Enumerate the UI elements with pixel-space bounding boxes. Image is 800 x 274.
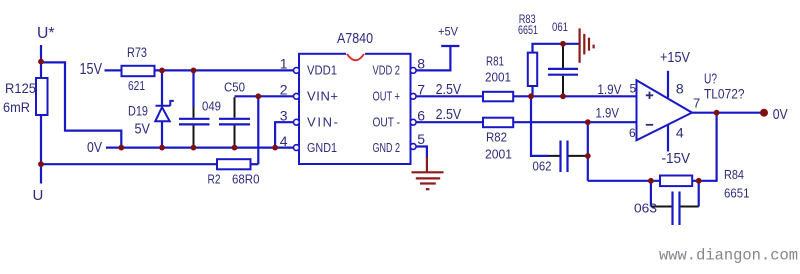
wire feedback row left of R84 [588,180,660,182]
resistor R83 [528,53,537,86]
ground sideways near C61 [580,28,594,62]
svg-text:-15V: -15V [662,150,691,167]
ground GND2 (pin 5) [412,157,444,189]
node C50 bottom [232,145,238,151]
svg-text:1.9V: 1.9V [596,104,620,120]
node 049 bottom [191,145,197,151]
op-amp minus sign [646,124,653,126]
svg-text:OUT -: OUT - [373,115,401,130]
node 0V terminal [760,109,768,117]
svg-text:www.diangon.com: www.diangon.com [659,247,798,265]
capacitor C63 [651,192,699,226]
svg-text:R125: R125 [5,80,36,96]
wire R125 bottom to bottom rail and U terminal [40,115,42,184]
diode D19 zener [155,101,174,121]
resistor R2 [217,159,251,169]
svg-text:VDD1: VDD1 [307,63,337,78]
wire D19 column top [161,70,163,105]
svg-text:15V: 15V [80,61,103,78]
node R83 bottom [528,93,534,99]
svg-text:68R0: 68R0 [232,172,260,187]
capacitor C62 [549,141,586,173]
op-amp U1 TL072 [637,80,693,140]
svg-text:5: 5 [417,131,425,147]
wire OUT- row to R82 [416,121,483,123]
node 0V bend [118,145,124,151]
node C63 right [696,178,702,184]
svg-text:2001: 2001 [485,70,511,85]
node riser VIN+ [255,93,261,99]
svg-text:R2: R2 [208,172,221,187]
svg-text:2.5V: 2.5V [436,81,462,98]
svg-text:062: 062 [533,159,552,174]
pin circles A7840 left [294,68,417,151]
svg-text:4: 4 [676,124,684,140]
svg-text:6: 6 [417,107,425,123]
svg-text:U*: U* [37,25,55,42]
resistor R81 [483,92,513,102]
op-amp plus sign [646,92,653,99]
svg-text:R81: R81 [486,54,504,69]
svg-text:6mR: 6mR [3,99,30,115]
svg-text:5V: 5V [135,121,151,138]
node U bottom rail [38,161,44,167]
IC U A7840 body [299,54,411,164]
IC notch (red) [346,52,365,56]
wire pin3 stub [275,122,294,147]
node U* branch [38,59,44,65]
svg-text:C50: C50 [224,79,245,94]
wire 0V rail [106,147,294,149]
resistor R73 [122,66,155,76]
wire C63 left drop [650,181,652,207]
wire R82 to op-amp - input [513,121,636,123]
svg-text:3: 3 [280,107,288,123]
svg-text:1.9V: 1.9V [597,81,622,97]
node output junction [714,110,720,116]
wire C63 right drop [698,181,700,207]
node C63 left [648,178,654,184]
wire pin5 to ground [415,147,427,159]
svg-text:GND 2: GND 2 [373,140,401,155]
node 049 top [191,68,197,74]
wire branch U* to 0V bend [41,62,121,147]
svg-text:1: 1 [280,56,288,72]
wire riser R2 to VIN+ row [257,96,259,164]
svg-text:TL072?: TL072? [704,86,745,102]
svg-text:2: 2 [280,81,288,97]
svg-text:+15V: +15V [660,49,690,66]
svg-text:061: 061 [552,20,568,34]
wire op-amp V- stub [667,125,669,152]
node pin3 to rail [272,145,278,151]
wire C62 left drop [531,96,549,156]
wire C62 right riser [587,122,589,181]
node C61 top [560,41,566,47]
node C62 right [585,153,591,159]
wire op-amp V+ stub [667,71,669,98]
svg-text:VDD 2: VDD 2 [373,63,401,78]
svg-text:R82: R82 [486,130,507,145]
wire bottom rail right of R2 [251,163,259,165]
svg-text:6651: 6651 [518,23,538,37]
resistor R84 [660,176,692,187]
resistor R125 [36,78,48,115]
wire feedback row right of R84 up to output [692,113,716,181]
svg-text:2001: 2001 [485,147,512,162]
wire bottom rail left [41,163,217,165]
svg-text:4: 4 [280,133,288,149]
resistor R82 [483,118,513,128]
wire OUT+ row to R81 [416,95,483,97]
capacitor C61 [548,45,578,95]
wire 15V lead [105,69,122,71]
svg-text:621: 621 [128,78,145,93]
svg-text:6651: 6651 [724,186,750,201]
svg-text:GND1: GND1 [307,140,337,155]
svg-text:7: 7 [693,96,700,111]
svg-text:R84: R84 [724,167,744,182]
svg-text:7: 7 [417,81,425,97]
wire pin8 to +5V [416,46,450,70]
svg-text:U: U [33,187,44,204]
node D19 bottom [159,145,165,151]
pin circles A7840 right [410,68,416,74]
svg-text:OUT +: OUT + [373,89,401,104]
wire top rail R73 to pin1 [155,69,294,71]
capacitor C50 [219,97,250,147]
svg-text:5: 5 [630,81,637,95]
svg-text:063: 063 [634,201,657,216]
svg-text:VIN+: VIN+ [307,89,338,104]
svg-text:0V: 0V [773,106,788,123]
svg-text:D19: D19 [128,103,148,119]
node C61 bottom [560,93,566,99]
svg-text:R73: R73 [127,44,147,60]
wire R83 bottom stem [531,86,533,96]
wire VIN+ row C50 to pin2 [235,95,294,97]
node D19 top [159,68,165,74]
wire op-amp output to 0V terminal [692,112,764,114]
svg-text:VIN-: VIN- [307,115,338,130]
capacitor 049 [179,107,210,148]
svg-text:8: 8 [676,81,684,97]
wire D19 column bottom [161,121,163,147]
svg-text:049: 049 [202,99,221,114]
node minus input [585,119,591,125]
wire 049 top stem [192,70,194,107]
svg-text:+5V: +5V [438,25,458,39]
wire R81 to op-amp + input [513,95,636,97]
svg-text:8: 8 [417,56,425,72]
wire U* stem [40,45,42,78]
svg-text:6: 6 [629,126,636,140]
wire R83 top to ground rail [533,44,579,53]
svg-text:0V: 0V [87,139,102,156]
svg-text:2.5V: 2.5V [436,106,462,123]
+5V bar [441,45,459,47]
svg-text:A7840: A7840 [337,30,373,47]
